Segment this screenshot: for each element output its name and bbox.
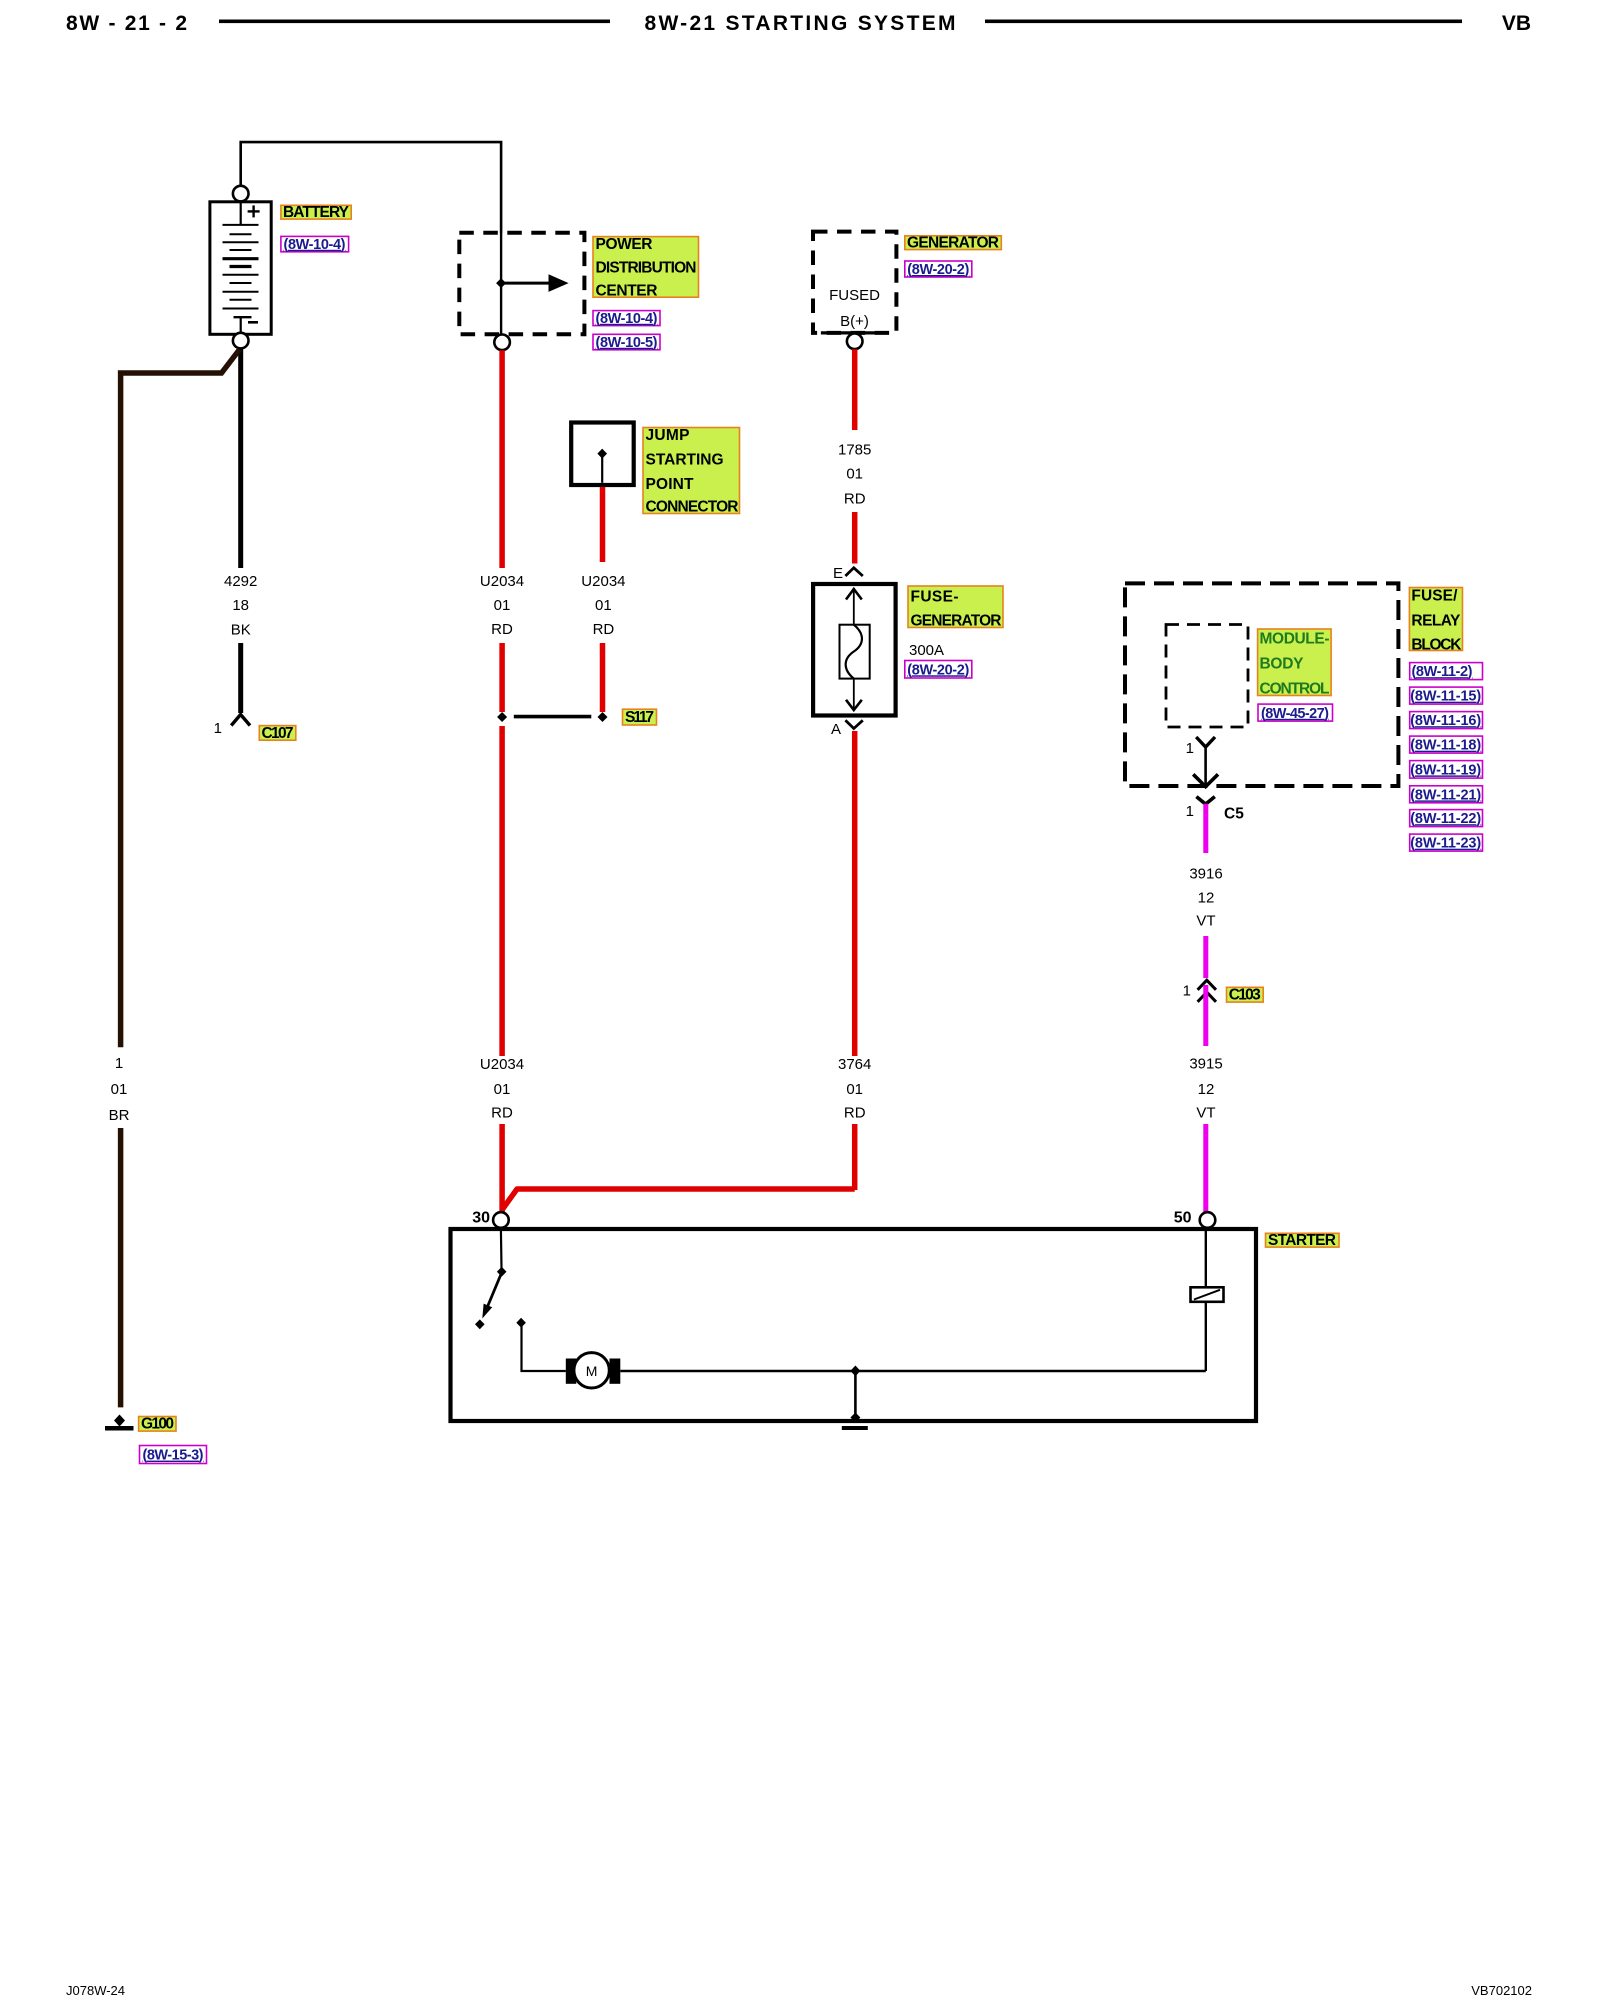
svg-text:3915: 3915	[1189, 1056, 1222, 1073]
connector C5 fork	[1196, 797, 1214, 805]
label BATTERY	[281, 204, 351, 221]
svg-text:01: 01	[494, 1081, 511, 1098]
wire RD PDC down segment 1	[499, 350, 505, 568]
label MODULE-BODY CONTROL	[1258, 629, 1332, 698]
svg-text:(8W-11-18): (8W-11-18)	[1410, 738, 1481, 754]
generator bottom bar	[821, 331, 888, 334]
svg-text:U2034: U2034	[480, 573, 524, 590]
wire VT C103 lower	[1203, 985, 1208, 1046]
svg-text:DISTRIBUTION: DISTRIBUTION	[596, 260, 697, 277]
wire RD to starter terminal 30	[499, 1124, 505, 1212]
svg-text:30: 30	[472, 1210, 490, 1227]
svg-text:12: 12	[1198, 890, 1215, 907]
svg-text:GENERATOR: GENERATOR	[911, 613, 1002, 630]
svg-text:STARTING: STARTING	[646, 452, 724, 469]
wire RD jump connector lower	[600, 643, 606, 712]
wire BR battery negative to ground lower	[118, 1128, 124, 1407]
connector E chevron	[845, 568, 862, 576]
wire BK battery negative upper	[238, 348, 243, 568]
link 8W-20-2 fuse	[905, 661, 972, 679]
link 8W-11-22	[1410, 810, 1483, 828]
jump connector pin	[597, 449, 607, 483]
svg-text:1: 1	[1183, 983, 1191, 1000]
svg-text:B(+): B(+)	[840, 313, 869, 330]
svg-text:C5: C5	[1224, 806, 1244, 823]
power distribution center dashed box	[459, 233, 584, 335]
junction starter ground	[850, 1366, 860, 1377]
svg-text:(8W-10-4): (8W-10-4)	[596, 311, 658, 327]
connector A chevron	[845, 720, 862, 728]
svg-text:U2034: U2034	[581, 573, 625, 590]
svg-text:1: 1	[1186, 803, 1194, 820]
svg-text:STARTER: STARTER	[1268, 1232, 1336, 1249]
link 8W-45-27	[1258, 704, 1333, 722]
battery body	[210, 202, 271, 334]
svg-text:(8W-20-2): (8W-20-2)	[907, 262, 969, 278]
svg-text:POINT: POINT	[646, 476, 695, 493]
junction at starter case	[850, 1413, 860, 1423]
svg-text:(8W-45-27): (8W-45-27)	[1261, 706, 1329, 722]
link 8W-11-23	[1410, 834, 1483, 852]
fuse generator box	[813, 584, 896, 716]
label C103	[1227, 987, 1264, 1004]
svg-text:(8W-11-23): (8W-11-23)	[1410, 836, 1481, 852]
wire to starter ground	[854, 1371, 857, 1420]
svg-text:1: 1	[115, 1055, 123, 1072]
link 8W-10-4 PDC	[593, 311, 660, 327]
svg-text:1785: 1785	[838, 442, 871, 459]
wire inside PDC	[500, 233, 502, 335]
wire RD generator segment 2	[852, 512, 858, 564]
wire label U2034 01 RD lower	[480, 1056, 524, 1122]
header rule left	[219, 20, 610, 24]
wire RD fuse to junction segment 1	[852, 731, 858, 1056]
generator text FUSED B(+)	[829, 287, 880, 330]
link 8W-11-2	[1410, 663, 1483, 681]
svg-text:RD: RD	[844, 1105, 866, 1122]
svg-text:J078W-24: J078W-24	[66, 1983, 125, 1998]
battery negative terminal circle	[233, 333, 249, 349]
link 8W-11-19	[1410, 761, 1483, 779]
fuse element	[840, 588, 870, 711]
wire RD splice to starter segment 1	[499, 726, 505, 1056]
wire RD horizontal junction	[502, 1189, 854, 1210]
link 8W-15-3	[140, 1446, 207, 1464]
module pin 1 fork	[1193, 737, 1218, 787]
wire terminal 50 to relay coil	[1205, 1229, 1207, 1287]
link 8W-10-5 PDC	[593, 334, 660, 351]
link 8W-20-2 generator	[905, 261, 972, 278]
starter terminal 50 circle	[1200, 1212, 1216, 1228]
svg-text:FUSE/: FUSE/	[1411, 588, 1458, 605]
wire battery positive to PDC	[241, 142, 501, 233]
wire RD generator segment 1	[852, 349, 858, 430]
svg-text:CONTROL: CONTROL	[1260, 681, 1330, 698]
PDC output terminal circle	[494, 335, 510, 351]
splice S117	[497, 712, 607, 722]
svg-text:G100: G100	[141, 1416, 174, 1433]
svg-text:1: 1	[214, 720, 222, 737]
starter box	[451, 1229, 1257, 1421]
label GENERATOR	[905, 235, 1002, 252]
svg-text:VT: VT	[1196, 1105, 1215, 1122]
link 8W-11-15	[1410, 687, 1483, 705]
wire label 3916 12 VT	[1189, 866, 1222, 930]
svg-text:4292: 4292	[224, 573, 257, 590]
wire RD PDC down segment 2	[499, 643, 505, 712]
wire label 3915 12 VT	[1189, 1056, 1222, 1122]
wire label 1 01 BR	[109, 1055, 130, 1124]
fuse relay block dashed box	[1125, 583, 1398, 786]
svg-text:01: 01	[595, 597, 612, 614]
wire label 4292 18 BK	[224, 573, 257, 638]
svg-text:C103: C103	[1229, 987, 1261, 1004]
svg-text:(8W-11-16): (8W-11-16)	[1410, 713, 1481, 729]
body control module dashed box	[1166, 625, 1248, 728]
wire label U2034 01 RD jump	[581, 573, 625, 638]
svg-text:VB: VB	[1502, 12, 1531, 35]
wire VT C5 segment 1	[1203, 804, 1208, 853]
junction PDC	[496, 278, 506, 288]
svg-text:01: 01	[846, 466, 863, 483]
wire label U2034 01 RD left upper	[480, 573, 524, 638]
svg-text:POWER: POWER	[596, 236, 653, 253]
label FUSE RELAY BLOCK	[1409, 588, 1462, 654]
svg-text:RD: RD	[491, 621, 513, 638]
generator output terminal circle	[847, 334, 863, 350]
label C107	[259, 725, 296, 742]
label S117	[623, 709, 657, 726]
wire relay coil to ground wire	[1205, 1302, 1207, 1371]
link 8W-11-18	[1410, 736, 1483, 754]
svg-text:BODY: BODY	[1260, 656, 1305, 673]
wire label 1785 01 RD	[838, 442, 871, 508]
svg-text:A: A	[831, 721, 841, 738]
wire RD fuse to junction segment 2	[852, 1124, 858, 1190]
svg-text:(8W-11-2): (8W-11-2)	[1412, 664, 1473, 680]
svg-text:(8W-10-4): (8W-10-4)	[284, 237, 346, 253]
svg-text:RD: RD	[593, 621, 615, 638]
link 8W-11-16	[1410, 712, 1483, 730]
svg-text:CENTER: CENTER	[596, 283, 658, 300]
switch contact to motor	[516, 1318, 566, 1371]
wire motor to relay	[620, 1370, 1206, 1372]
svg-text:300A: 300A	[909, 642, 944, 659]
connector C103 double chevron	[1198, 980, 1216, 1002]
svg-text:GENERATOR: GENERATOR	[907, 235, 999, 252]
svg-text:18: 18	[232, 597, 249, 614]
label POWER DISTRIBUTION CENTER	[593, 236, 699, 300]
svg-text:RD: RD	[844, 491, 866, 508]
generator dashed box	[813, 232, 896, 333]
svg-text:(8W-10-5): (8W-10-5)	[596, 335, 658, 351]
svg-text:S117: S117	[625, 709, 654, 726]
svg-text:01: 01	[494, 597, 511, 614]
starter case ground bar	[842, 1426, 868, 1430]
svg-text:1: 1	[1186, 740, 1194, 757]
link 8W-11-21	[1410, 786, 1483, 804]
jump starting point connector box	[571, 423, 634, 486]
svg-text:MODULE-: MODULE-	[1260, 631, 1330, 648]
label JUMP STARTING POINT CONNECTOR	[643, 427, 740, 515]
svg-text:JUMP: JUMP	[646, 427, 690, 444]
svg-text:01: 01	[846, 1081, 863, 1098]
svg-text:8W - 21 - 2: 8W - 21 - 2	[66, 12, 187, 35]
label FUSE-GENERATOR	[908, 586, 1003, 630]
starter motor M	[566, 1353, 621, 1388]
svg-text:VB702102: VB702102	[1471, 1983, 1532, 1998]
svg-text:CONNECTOR: CONNECTOR	[646, 498, 739, 515]
svg-text:BATTERY: BATTERY	[283, 204, 350, 221]
svg-text:(8W-11-19): (8W-11-19)	[1410, 762, 1481, 778]
wire BK battery negative lower	[238, 643, 243, 713]
svg-text:VT: VT	[1196, 913, 1215, 930]
wire RD jump connector upper	[600, 487, 606, 562]
header rule right	[985, 20, 1462, 24]
svg-text:FUSE-: FUSE-	[911, 588, 959, 605]
ground G100	[105, 1415, 134, 1431]
svg-text:M: M	[586, 1363, 598, 1379]
svg-text:12: 12	[1198, 1081, 1215, 1098]
wire VT to starter terminal 50	[1203, 1124, 1208, 1212]
wire label 3764 01 RD	[838, 1056, 871, 1122]
svg-text:BR: BR	[109, 1107, 130, 1124]
svg-text:50: 50	[1174, 1210, 1192, 1227]
svg-text:8W-21 STARTING SYSTEM: 8W-21 STARTING SYSTEM	[645, 12, 956, 35]
wire VT C5 segment 2	[1203, 936, 1208, 978]
svg-text:01: 01	[111, 1081, 128, 1098]
starter terminal 30 circle	[493, 1212, 509, 1228]
svg-text:(8W-15-3): (8W-15-3)	[143, 1448, 204, 1464]
svg-text:3916: 3916	[1189, 866, 1222, 883]
svg-text:(8W-11-15): (8W-11-15)	[1410, 689, 1481, 705]
svg-text:(8W-20-2): (8W-20-2)	[907, 662, 969, 678]
battery B+ terminal circle	[233, 186, 249, 202]
svg-text:3764: 3764	[838, 1056, 871, 1073]
svg-text:(8W-11-21): (8W-11-21)	[1410, 787, 1481, 803]
label G100	[139, 1416, 176, 1433]
svg-text:E: E	[833, 565, 843, 582]
link 8W-10-4 battery	[281, 236, 349, 252]
wire BR battery negative to ground upper	[121, 350, 240, 1048]
svg-text:(8W-11-22): (8W-11-22)	[1410, 811, 1481, 827]
svg-text:U2034: U2034	[480, 1056, 524, 1073]
svg-text:BLOCK: BLOCK	[1411, 636, 1462, 653]
connector C107 fork	[231, 715, 250, 726]
starter relay coil	[1191, 1287, 1224, 1302]
svg-text:C107: C107	[262, 725, 294, 742]
starter solenoid switch	[475, 1229, 507, 1329]
svg-text:FUSED: FUSED	[829, 287, 880, 304]
PDC feed arrow	[501, 274, 568, 292]
label STARTER	[1266, 1232, 1340, 1249]
svg-text:RELAY: RELAY	[1411, 613, 1461, 630]
svg-text:BK: BK	[231, 621, 251, 638]
svg-text:RD: RD	[491, 1105, 513, 1122]
